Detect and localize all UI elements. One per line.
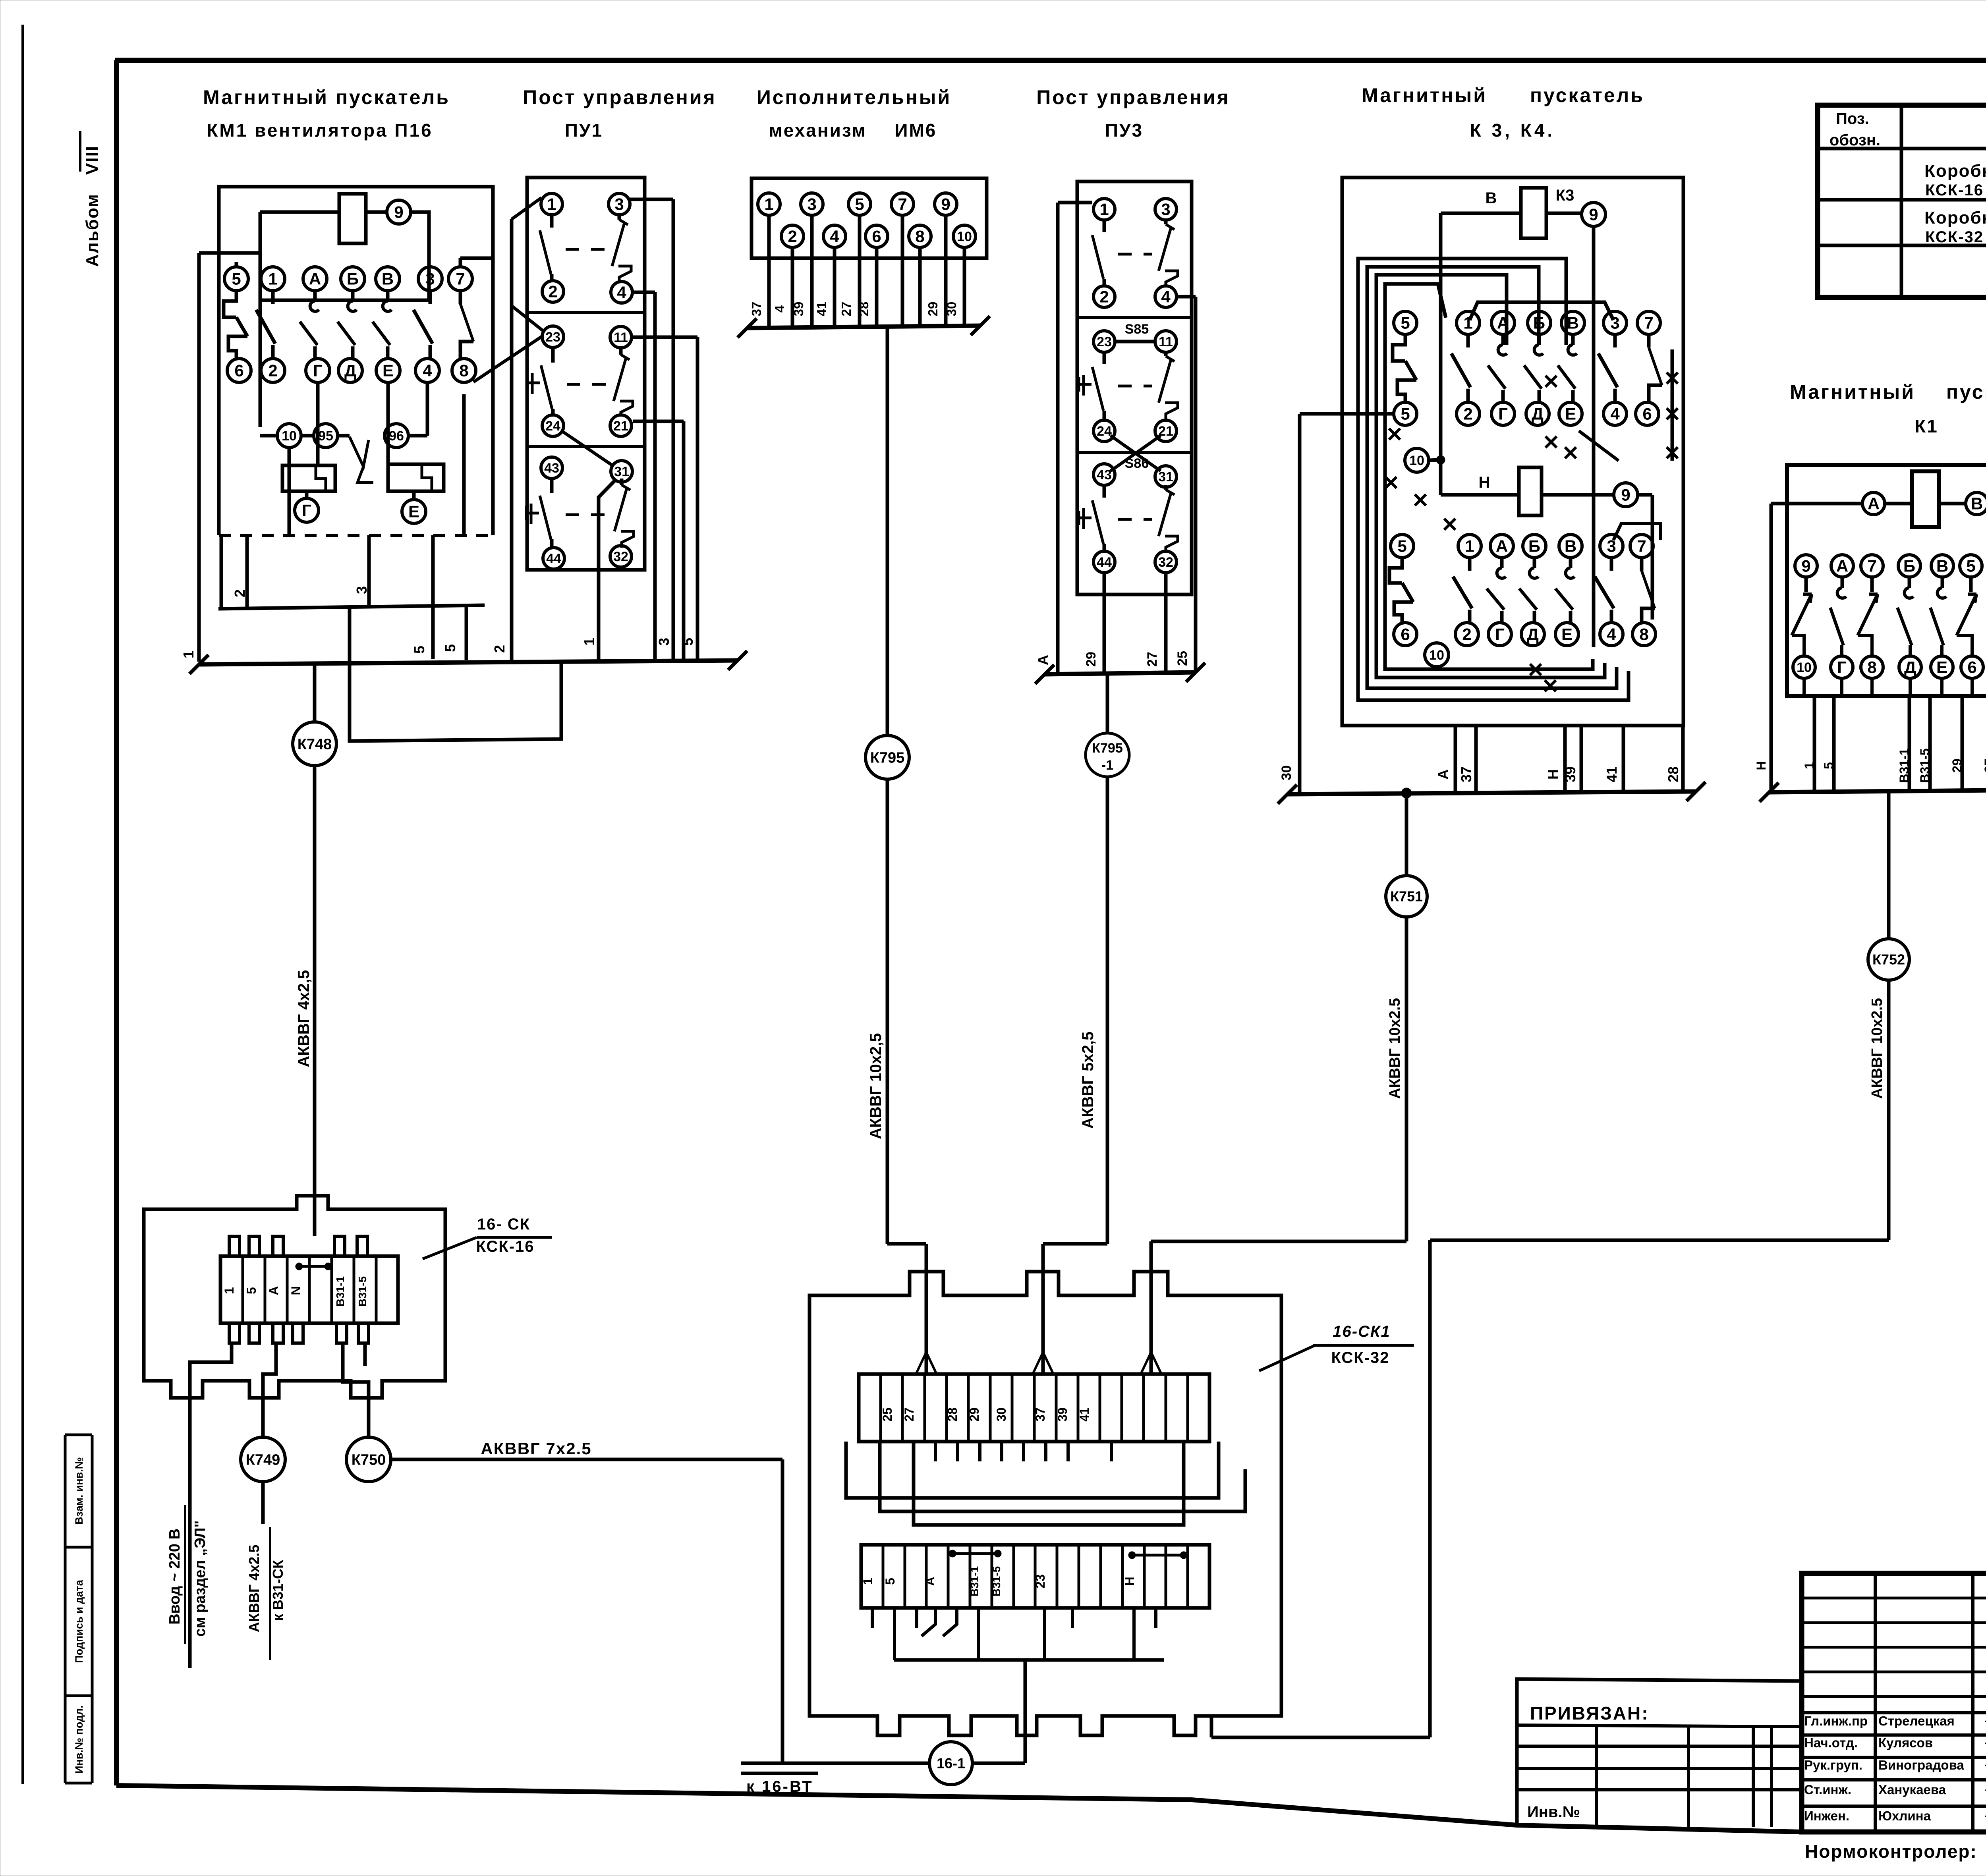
svg-text:Пост управления: Пост управления [1036,86,1230,108]
svg-text:Б: Б [1533,314,1545,332]
svg-text:32: 32 [1158,555,1173,570]
svg-text:25: 25 [880,1407,894,1422]
svg-text:10: 10 [1797,660,1812,675]
svg-text:10: 10 [1429,648,1444,663]
svg-text:А: А [923,1577,937,1586]
svg-text:Н: Н [1479,474,1490,491]
svg-text:К3: К3 [1556,187,1575,204]
svg-text:7: 7 [1644,314,1653,332]
svg-text:29: 29 [925,302,940,317]
svg-text:В31-1: В31-1 [334,1276,346,1307]
svg-text:АКВВГ 7х2.5: АКВВГ 7х2.5 [481,1439,591,1458]
svg-text:30: 30 [944,302,959,317]
svg-text:10: 10 [282,428,297,444]
svg-text:Б: Б [347,270,359,288]
svg-text:16- СК: 16- СК [477,1216,530,1233]
svg-text:3: 3 [614,195,624,214]
svg-text:43: 43 [1097,467,1112,483]
svg-text:А: А [1836,557,1848,575]
svg-text:В31-5: В31-5 [990,1566,1003,1596]
svg-text:Инв.№: Инв.№ [1527,1803,1580,1821]
svg-text:Ввод ~ 220 В: Ввод ~ 220 В [166,1529,183,1625]
svg-text:Поз.: Поз. [1836,110,1869,127]
svg-text:ПРИВЯЗАН:: ПРИВЯЗАН: [1530,1703,1649,1724]
svg-text:95: 95 [318,428,333,444]
svg-text:АКВВГ 10х2,5: АКВВГ 10х2,5 [867,1033,885,1139]
svg-text:30: 30 [994,1407,1008,1422]
svg-text:4: 4 [772,305,787,313]
svg-text:Магнитный пускатель: Магнитный пускатель [1362,84,1644,106]
svg-text:2: 2 [788,227,797,246]
svg-text:5: 5 [1397,537,1406,556]
svg-text:Нач.отд.: Нач.отд. [1804,1735,1858,1750]
svg-text:механизм ИМ6: механизм ИМ6 [769,120,937,141]
svg-text:Инжен.: Инжен. [1804,1808,1849,1823]
svg-text:11: 11 [614,330,628,345]
svg-text:АКВВГ 4х2,5: АКВВГ 4х2,5 [295,970,313,1067]
svg-text:ПУ1: ПУ1 [565,120,603,141]
svg-text:41: 41 [814,302,829,317]
svg-text:А: А [1035,655,1051,665]
svg-text:В: В [1565,537,1576,556]
svg-text:23: 23 [1033,1574,1047,1588]
svg-text:2: 2 [548,282,557,301]
svg-text:обозн.: обозн. [1830,131,1880,149]
svg-text:Д: Д [344,361,356,380]
svg-text:Г: Г [313,361,323,380]
svg-text:VIII: VIII [83,145,102,175]
svg-text:39: 39 [1055,1407,1070,1422]
svg-text:1: 1 [268,270,277,288]
svg-text:4: 4 [830,227,839,246]
svg-text:37: 37 [749,302,764,317]
svg-text:44: 44 [1097,555,1112,570]
svg-text:К748: К748 [298,736,332,753]
svg-text:9: 9 [1621,486,1630,504]
svg-text:2: 2 [268,361,277,380]
svg-text:28: 28 [856,302,871,317]
svg-text:8: 8 [915,227,924,246]
svg-text:9: 9 [1589,205,1598,224]
svg-text:1: 1 [1465,537,1474,556]
svg-text:24: 24 [1097,424,1112,439]
svg-text:К 3, К4.: К 3, К4. [1470,120,1555,141]
svg-text:АКВВГ 10х2.5: АКВВГ 10х2.5 [1387,998,1403,1099]
svg-text:1: 1 [1099,200,1109,219]
svg-text:10: 10 [1409,453,1424,468]
svg-text:2: 2 [1463,405,1472,423]
svg-text:В: В [1936,557,1948,575]
svg-text:3: 3 [656,638,672,646]
svg-text:Магнитный пускатель: Магнитный пускатель [203,86,450,108]
svg-text:Н: Н [1122,1577,1137,1586]
svg-text:27: 27 [1145,652,1160,667]
svg-text:4: 4 [423,361,432,380]
svg-text:43: 43 [544,461,559,476]
svg-text:КСК-32: КСК-32 [1331,1349,1390,1366]
svg-text:31: 31 [1158,469,1173,484]
svg-text:Стрелецкая: Стрелецкая [1878,1714,1955,1728]
svg-text:Альбом: Альбом [83,193,102,267]
svg-text:Рук.груп.: Рук.груп. [1804,1758,1862,1772]
svg-text:24: 24 [545,419,560,434]
svg-text:3: 3 [425,270,435,288]
svg-text:КСК-16: КСК-16 [1925,181,1984,199]
svg-text:Коробка соединительная: Коробка соединительная [1924,161,1986,181]
svg-text:N: N [289,1286,303,1295]
svg-text:3: 3 [807,195,816,214]
svg-text:23: 23 [545,330,560,345]
svg-text:Ханукаева: Ханукаева [1878,1782,1946,1797]
svg-text:Взам. инв.№: Взам. инв.№ [73,1457,85,1525]
svg-text:6: 6 [872,227,881,246]
svg-text:-1: -1 [1101,758,1113,773]
svg-text:5: 5 [680,638,696,646]
svg-text:К752: К752 [1872,952,1905,968]
svg-text:3: 3 [1610,314,1619,332]
svg-text:5: 5 [411,646,427,654]
svg-text:9: 9 [1801,557,1810,575]
svg-text:30: 30 [1279,765,1294,780]
svg-text:см раздел „ЭЛ": см раздел „ЭЛ" [192,1521,209,1637]
svg-text:А: А [309,270,321,288]
svg-text:АКВВГ 5х2,5: АКВВГ 5х2,5 [1079,1032,1097,1129]
svg-text:10: 10 [957,229,972,244]
svg-text:Е: Е [1565,405,1576,423]
svg-text:7: 7 [456,270,465,288]
svg-text:АКВВГ 4х2.5: АКВВГ 4х2.5 [246,1545,262,1632]
svg-text:Нормоконтролер:: Нормоконтролер: [1805,1841,1977,1862]
svg-text:В: В [1567,314,1579,332]
svg-text:В31-5: В31-5 [1918,748,1932,783]
svg-text:КМ1 вентилятора П16: КМ1 вентилятора П16 [207,120,433,141]
svg-text:39: 39 [1562,766,1578,782]
svg-text:В: В [382,270,394,288]
svg-text:5: 5 [442,644,458,652]
svg-text:1: 1 [764,195,773,214]
svg-text:41: 41 [1077,1407,1092,1422]
svg-text:к В31-СК: к В31-СК [270,1559,286,1621]
svg-text:29: 29 [1950,759,1964,773]
svg-text:4: 4 [617,283,626,302]
svg-text:КСК-32: КСК-32 [1925,228,1984,246]
svg-text:Д: Д [1527,625,1539,644]
svg-text:В31-1: В31-1 [968,1566,981,1596]
svg-text:Магнитный пускатель: Магнитный пускатель [1790,381,1986,403]
svg-text:2: 2 [1099,288,1109,306]
svg-text:25: 25 [1175,651,1190,666]
svg-text:6: 6 [1642,405,1652,423]
svg-text:8: 8 [1639,625,1648,644]
svg-text:Г: Г [302,501,311,520]
svg-text:5: 5 [883,1578,897,1585]
svg-text:41: 41 [1603,766,1620,782]
svg-text:В: В [1486,189,1497,207]
svg-text:7: 7 [1867,557,1876,575]
svg-text:Коробка соединительная: Коробка соединительная [1924,208,1986,228]
svg-text:31: 31 [614,464,629,479]
svg-text:5: 5 [855,195,864,214]
svg-text:Ст.инж.: Ст.инж. [1804,1782,1851,1797]
svg-text:27: 27 [839,302,854,317]
svg-text:7: 7 [898,195,907,214]
svg-text:К1: К1 [1915,416,1938,436]
svg-text:6: 6 [234,361,243,380]
svg-text:Исполнительный: Исполнительный [757,86,951,108]
svg-text:К751: К751 [1390,888,1423,905]
svg-text:Кулясов: Кулясов [1878,1735,1933,1750]
svg-text:В: В [1971,494,1983,513]
svg-text:А: А [267,1286,281,1295]
svg-text:5: 5 [1822,762,1836,769]
svg-text:Инв.№ подл.: Инв.№ подл. [73,1705,85,1774]
svg-text:Подпись и дата: Подпись и дата [73,1579,85,1663]
svg-text:2: 2 [1462,625,1471,644]
svg-text:16-СК1: 16-СК1 [1333,1323,1391,1340]
svg-text:Б: Б [1903,557,1915,575]
svg-text:Н: Н [1545,769,1561,780]
svg-text:К795: К795 [1092,741,1122,756]
svg-text:S85: S85 [1125,322,1149,337]
svg-text:4: 4 [1161,288,1171,306]
svg-text:1: 1 [581,638,597,646]
svg-text:28: 28 [945,1407,960,1422]
svg-text:1: 1 [861,1578,875,1585]
svg-text:5: 5 [1966,557,1975,575]
svg-text:7: 7 [1637,537,1646,556]
svg-text:5: 5 [1401,405,1410,423]
svg-text:Пост управления: Пост управления [523,86,716,108]
svg-text:Виноградова: Виноградова [1878,1758,1964,1772]
svg-text:АКВВГ 10х2.5: АКВВГ 10х2.5 [1869,998,1886,1099]
svg-text:44: 44 [546,551,561,566]
svg-text:11: 11 [1159,334,1173,349]
svg-text:Гл.инж.пр: Гл.инж.пр [1804,1714,1868,1728]
svg-text:23: 23 [1097,334,1112,349]
svg-text:8: 8 [459,361,468,380]
svg-text:1: 1 [180,650,197,658]
svg-text:В31-1: В31-1 [1897,748,1911,783]
svg-text:Е: Е [408,502,419,521]
svg-text:2: 2 [232,589,248,597]
svg-text:8: 8 [1867,658,1876,677]
svg-text:Г: Г [1495,625,1505,644]
svg-text:3: 3 [354,586,370,594]
svg-text:4: 4 [1607,625,1616,644]
svg-text:ПУ3: ПУ3 [1105,120,1143,141]
svg-text:А: А [1496,537,1508,556]
svg-text:1: 1 [547,195,556,214]
svg-text:2: 2 [491,645,508,653]
svg-text:29: 29 [1084,652,1099,667]
svg-text:5: 5 [1401,314,1410,332]
svg-text:К749: К749 [246,1451,280,1468]
svg-text:Е: Е [383,361,394,380]
svg-text:к 16-ВТ: к 16-ВТ [746,1778,813,1795]
svg-text:1: 1 [222,1287,236,1294]
svg-text:Г: Г [1837,658,1847,677]
svg-text:29: 29 [967,1407,981,1422]
svg-text:К750: К750 [352,1451,386,1468]
svg-text:Д: Д [1532,405,1544,423]
svg-text:Г: Г [1498,405,1508,423]
svg-text:6: 6 [1401,625,1410,644]
svg-text:27: 27 [1982,759,1986,773]
svg-text:Д: Д [1904,658,1916,677]
svg-text:А: А [1868,494,1880,513]
svg-text:21: 21 [613,419,628,434]
svg-text:37: 37 [1033,1407,1047,1422]
svg-text:Юхлина: Юхлина [1878,1808,1931,1823]
svg-text:Н: Н [1754,761,1768,770]
svg-text:3: 3 [1607,537,1616,556]
svg-text:6: 6 [1967,658,1976,677]
svg-text:Е: Е [1561,625,1573,644]
svg-text:37: 37 [1458,766,1474,782]
svg-text:А: А [1497,314,1509,332]
svg-text:9: 9 [941,195,950,214]
svg-text:1: 1 [1802,762,1816,769]
svg-text:5: 5 [232,270,241,288]
svg-text:27: 27 [902,1407,916,1422]
svg-text:39: 39 [791,302,806,317]
svg-text:32: 32 [613,549,628,564]
svg-text:А: А [1435,769,1451,780]
svg-text:28: 28 [1665,766,1681,782]
svg-text:3: 3 [1161,200,1170,219]
svg-text:К795: К795 [870,749,905,766]
svg-text:9: 9 [394,203,403,222]
svg-text:4: 4 [1610,405,1620,423]
svg-text:Е: Е [1936,658,1947,677]
svg-text:КСК-16: КСК-16 [476,1238,535,1255]
svg-text:5: 5 [244,1287,259,1294]
svg-text:В31-5: В31-5 [356,1276,369,1307]
svg-text:Б: Б [1528,537,1540,556]
svg-text:1: 1 [1463,314,1472,332]
svg-text:16-1: 16-1 [937,1755,965,1772]
svg-text:96: 96 [389,428,404,444]
